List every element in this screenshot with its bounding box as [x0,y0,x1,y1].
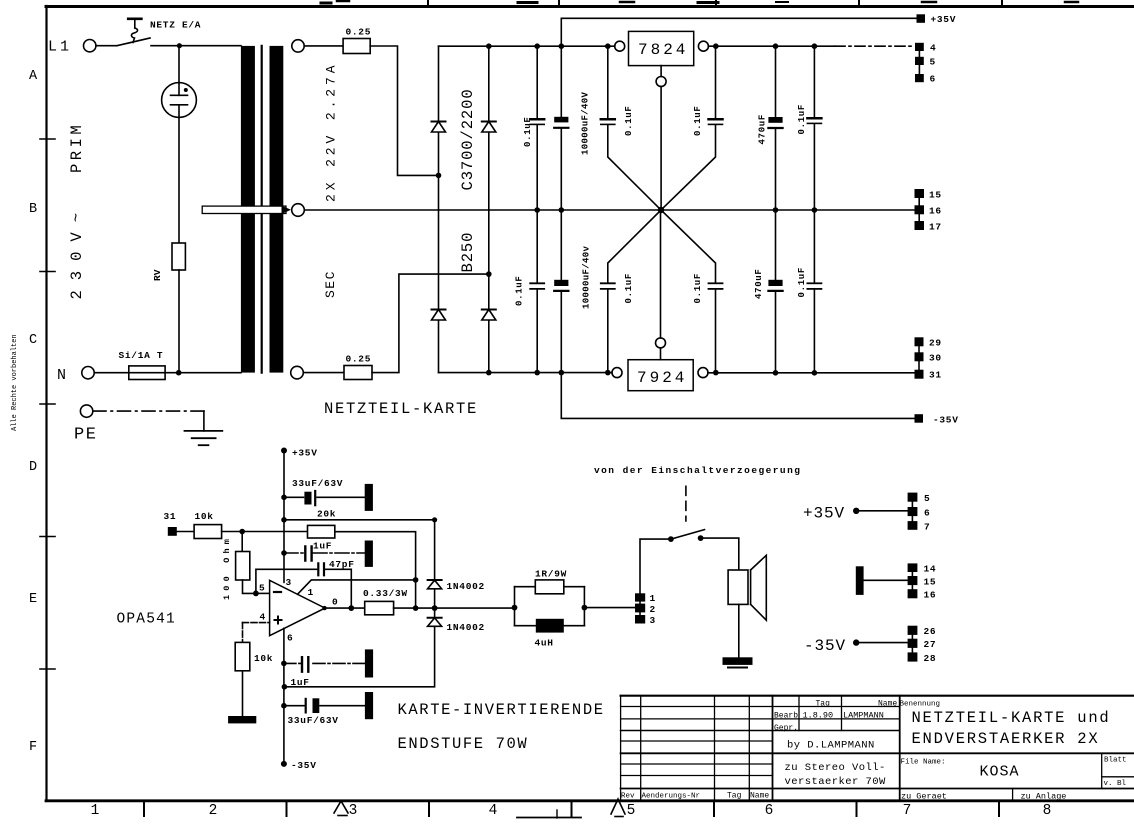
svg-text:Name: Name [750,792,769,801]
wire contact to speaker [701,538,739,570]
output network bracket right [583,587,585,626]
svg-text:1uF: 1uF [313,541,332,552]
junction 47pF output [348,605,354,611]
resistor 20k [308,525,335,538]
wire N to fuse [94,372,129,374]
svg-text:2X 22V 2.27A: 2X 22V 2.27A [324,62,339,202]
capacitor 0.1uF right of 7824 top [661,46,716,210]
junction 33uF bottom [281,703,287,709]
svg-text:33uF/63V: 33uF/63V [288,715,339,726]
svg-text:4: 4 [930,43,936,54]
svg-text:PE: PE [74,426,97,445]
connector pins 29 30 31 [915,337,924,346]
capacitor 0.1uF left of 7924 bottom [608,210,661,373]
resistor 10k lower [235,642,250,670]
svg-text:Blatt: Blatt [1104,757,1127,765]
wire to connector 2 [584,607,635,609]
svg-text:KARTE-INVERTIERENDE: KARTE-INVERTIERENDE [398,701,605,719]
ground bar 33uF bottom [365,692,373,719]
V- rail [283,628,285,764]
resistor 100 Ohm [236,552,250,581]
blatt cell [1101,753,1103,788]
svg-text:PRIM: PRIM [68,122,86,173]
wire sec bottom to fuse 0.25 [303,372,344,374]
svg-text:10000uF/40V: 10000uF/40V [581,91,591,155]
wire sec top to fuse 0.25 [304,45,343,47]
border frame left line [45,6,47,801]
wire raw+ to +35V line [561,18,917,46]
svg-text:0.1uF: 0.1uF [797,104,807,135]
switch NETZ E/A lever [117,38,150,46]
resistor 10k input [194,525,222,539]
svg-text:Alle Rechte vorbehalten: Alle Rechte vorbehalten [11,334,19,431]
terminal -35V amp [281,761,287,767]
svg-text:7: 7 [924,522,930,533]
svg-text:6: 6 [287,632,293,643]
clamp wire to diode column [284,520,435,580]
left ruler ticks [40,139,55,669]
svg-text:+35V: +35V [931,14,957,25]
feedback wire node A to 20k [242,531,307,533]
svg-text:D: D [29,460,37,475]
svg-text:B: B [29,202,37,217]
speaker LS [728,570,748,604]
svg-text:26: 26 [924,626,937,637]
svg-text:ENDSTUFE 70W: ENDSTUFE 70W [398,735,529,753]
glow lamp [162,83,197,118]
svg-text:230V~: 230V~ [68,203,86,300]
diode D3 [432,309,446,311]
top ruler tick fragments [321,0,1078,5]
switch NETZ E/A actuator [128,17,141,20]
svg-text:1: 1 [91,803,100,819]
svg-text:1N4002: 1N4002 [447,622,485,633]
transformer core line [261,46,263,373]
svg-text:File Name:: File Name: [901,758,946,766]
output network bracket left [514,587,516,626]
svg-text:27: 27 [924,639,937,650]
capacitor 1uF top [284,552,365,554]
svg-text:31: 31 [164,511,177,522]
junction 33uF top [281,495,287,501]
wire to op-amp pin 5 [256,592,270,594]
ground symbol at PE [185,430,223,432]
ground bar speaker [723,657,753,665]
relay contact dots [668,536,674,542]
capacitor 0.1uF right col bottom [813,210,815,373]
diode D2 [482,121,496,123]
raw + rail [439,45,615,47]
svg-text:by D.LAMPMANN: by D.LAMPMANN [787,740,875,752]
wire -35V to pin 27 [856,642,907,644]
svg-text:4uH: 4uH [535,638,554,649]
svg-text:OPA541: OPA541 [117,612,176,628]
capacitor 0.1uF col1 bottom [536,210,538,373]
resistor 1R/9W [515,586,536,588]
svg-text:2: 2 [650,604,656,615]
capacitor 0.1uF right of 7924 bottom [661,210,716,373]
wire +35V to pin 6 [856,510,907,512]
junction bridge AC1 [436,173,442,179]
connector pins 4 5 6 [915,43,924,51]
-35V feed dot [853,639,859,645]
svg-text:1: 1 [308,587,314,598]
regulator 7824 [629,31,694,65]
wire lamp to RV [178,117,180,243]
svg-text:Tag: Tag [816,700,831,709]
title block text [621,700,1127,802]
svg-text:Benennung: Benennung [900,700,941,708]
capacitor 0.1uF col1 top [536,46,538,210]
terminal PE [80,405,92,417]
connector pins 1 2 3 [635,593,645,601]
svg-text:Aenderungs-Nr: Aenderungs-Nr [642,793,701,801]
wire ground to pin 15 [864,579,908,581]
junction feedback output [413,605,419,611]
output wire [325,607,365,609]
bottom ruler ticks [144,801,999,816]
svg-text:SEC: SEC [323,270,338,298]
V+ rail [283,451,285,583]
terminal 31 input [168,527,177,536]
capacitor 47pF [318,563,324,575]
svg-text:5: 5 [930,57,936,68]
svg-text:7824: 7824 [638,41,688,59]
terminal L1 [84,40,96,52]
revision table verticals [640,696,642,800]
svg-text:zu Anlage: zu Anlage [1021,791,1067,801]
svg-text:470uF: 470uF [754,268,764,299]
amplifier labels [164,448,937,772]
capacitor 470uF bottom [775,210,777,373]
border frame top line [46,5,1134,8]
wire speaker to ground [738,604,740,657]
svg-text:5: 5 [627,803,636,819]
svg-text:L1: L1 [48,39,72,56]
wire L1 to switch [96,45,117,47]
connector pins 14 15 16 [908,563,918,572]
svg-text:Si/1A T: Si/1A T [119,350,164,361]
svg-text:28: 28 [924,653,937,664]
svg-text:0.1uF: 0.1uF [624,105,634,136]
transformer T1 primary bar [241,46,255,206]
pin 1 wire [298,580,416,594]
transformer secondary bar [270,46,284,206]
diode D4 [482,309,496,311]
junction inv input [253,591,259,597]
benennung section divider [899,696,901,800]
svg-text:E: E [29,592,37,607]
fuse 0.25 bottom [344,366,372,380]
svg-text:0.33/3W: 0.33/3W [363,588,408,599]
svg-text:16: 16 [929,206,942,217]
capacitor 0.1uF left of 7824 top [608,46,661,210]
svg-text:C: C [29,333,37,348]
zu geraet divider [1012,789,1014,801]
secondary top terminal [292,40,304,52]
svg-text:5: 5 [259,583,265,594]
svg-text:33uF/63V: 33uF/63V [292,478,343,489]
connector pins 5 6 7 [908,493,918,502]
inductor 4uH [515,625,536,627]
ground pin wire 7824 to center [660,87,662,211]
capacitor 33uF/63V bottom [284,705,365,707]
border frame bottom line [46,799,1134,802]
junction bridge - [486,370,492,376]
svg-text:15: 15 [924,577,937,588]
svg-text:0.1uF: 0.1uF [523,116,533,147]
node A junction [239,529,245,535]
bottom ruler numbers [91,803,1052,819]
svg-text:NETZ E/A: NETZ E/A [150,20,201,31]
wire 31 to 10k [177,531,194,533]
svg-text:NETZTEIL-KARTE: NETZTEIL-KARTE [324,400,478,418]
wire inv node up to 47pF [256,569,317,593]
fuse Si/1A T [129,366,165,380]
center tap arrow [202,206,286,213]
svg-text:zu Stereo Voll-: zu Stereo Voll- [785,762,886,774]
junction clamp line [281,517,287,523]
secondary bottom terminal [291,366,304,379]
svg-text:RV: RV [152,269,163,281]
bridge B250 branch 1 [438,46,440,372]
svg-text:1.8.90: 1.8.90 [803,710,834,720]
raw - rail [439,372,613,374]
wire 7924 out [708,372,915,374]
svg-text:1R/9W: 1R/9W [535,569,567,580]
junction node at lamp branch [177,43,182,48]
svg-text:0.1uF: 0.1uF [624,273,634,304]
fold mark near 3 [334,801,348,813]
svg-text:v. Bl: v. Bl [1104,780,1127,788]
svg-text:30: 30 [929,353,942,364]
title block left edge [620,696,622,800]
svg-text:1N4002: 1N4002 [447,581,485,592]
wire node down to glow lamp [178,46,180,83]
junction 1uF bottom [281,661,287,667]
svg-text:20k: 20k [317,509,336,520]
svg-text:Bearb: Bearb [774,712,798,721]
terminal +35V amp [281,448,287,454]
bearb/gepr grid verticals [798,696,800,731]
regulator 7924 [628,360,693,391]
ground bar feed [856,566,864,595]
output wire after resistor [394,607,515,609]
svg-text:+35V: +35V [292,448,318,459]
wire 47pF to output [326,569,352,608]
svg-text:8: 8 [1043,803,1052,819]
junction bridge + [486,43,492,49]
svg-text:10k: 10k [195,511,214,522]
svg-text:LAMPMANN: LAMPMANN [843,710,884,720]
junction feedback/pin1 [413,577,419,583]
svg-text:6: 6 [930,74,936,85]
wire switch to node [151,45,241,47]
svg-text:-35V: -35V [291,760,317,771]
svg-text:0.1uF: 0.1uF [515,275,525,306]
svg-text:0.25: 0.25 [346,27,372,38]
feedback wire 20k to output [335,532,416,608]
power supply labels [119,14,959,426]
svg-text:C3700/2200: C3700/2200 [459,88,477,190]
terminal N [82,367,94,379]
svg-text:3: 3 [349,803,358,819]
diode 1N4002 upper [428,579,442,581]
capacitor 33uF/63V top [284,496,365,498]
svg-text:Tag: Tag [727,792,742,801]
svg-text:15: 15 [929,190,942,201]
svg-text:0.1uF: 0.1uF [693,105,703,136]
clamp wire lower to V- rail [284,626,434,687]
relay contact lever [671,530,705,540]
svg-text:0.1uF: 0.1uF [693,273,703,304]
capacitor 470uF top [775,46,777,210]
svg-text:ENDVERSTAERKER 2X: ENDVERSTAERKER 2X [912,730,1100,748]
fold mark near 5 [611,799,625,814]
capacitor 1uF bottom [284,662,365,664]
relay actuator dashed [685,486,687,521]
svg-text:470uF: 470uF [758,114,768,145]
svg-text:1: 1 [650,593,656,604]
wire fuse to bridge AC2 [372,274,489,373]
diode D1 [432,121,446,123]
svg-text:3: 3 [286,577,292,588]
junction bridge AC2 [486,271,492,277]
svg-text:0.25: 0.25 [346,354,372,365]
wire fuse to bridge AC1 [370,46,438,175]
wire pin1 up to relay contact [640,539,671,593]
wire 10k to node A [222,531,243,533]
svg-text:KOSA: KOSA [980,764,1020,781]
svg-text:NETZTEIL-KARTE und: NETZTEIL-KARTE und [912,709,1111,727]
svg-text:B250: B250 [459,232,477,273]
revision table rows [621,706,900,708]
ground bar 1uF bottom [365,649,373,677]
svg-text:N: N [57,367,66,384]
wire 100 Ohm to inv input [243,580,256,593]
svg-text:F: F [29,740,37,755]
svg-text:17: 17 [929,222,942,233]
svg-text:29: 29 [929,338,942,349]
svg-text:4: 4 [260,611,266,622]
svg-text:6: 6 [924,508,930,519]
underline mark between 4 and 5 [517,817,581,819]
junction 1uF top [281,550,287,556]
pin 4 wire [243,622,270,624]
resistor RV [172,243,185,270]
diode 1N4002 lower [434,608,436,618]
wire raw- to -35V line [561,373,915,419]
title block outer top [621,695,1134,697]
op-amp OPA541 triangle [270,580,325,635]
svg-text:6: 6 [765,803,774,819]
svg-text:Gepr.: Gepr. [774,724,798,733]
terminal -35V [915,414,924,423]
star center junction [658,207,664,213]
secondary center terminal [292,204,305,217]
svg-text:von der Einschaltverzoegerung: von der Einschaltverzoegerung [594,465,801,476]
connector pins 26 27 28 [908,626,918,635]
svg-text:Name: Name [878,700,897,709]
svg-text:2: 2 [209,803,218,819]
wire 7824 out [708,45,835,47]
ground bar 33uF top [365,484,373,511]
svg-text:zu Geraet: zu Geraet [901,791,947,801]
PE dash-dot wire [93,410,204,412]
svg-text:7924: 7924 [637,369,687,387]
capacitor 10000uF/40V bottom [560,210,562,373]
bridge B250 branch 2 [488,46,490,372]
connector pins 15 16 17 [915,189,925,198]
resistor 0.33/3W [365,601,394,614]
wire fuse to transformer [165,372,241,374]
svg-text:+35V: +35V [803,505,845,523]
ground bar below 10k [228,716,256,723]
ground bar 1uF top [365,541,373,567]
wire RV to N line [178,270,180,373]
svg-text:31: 31 [929,370,942,381]
0V center rail [304,209,914,211]
svg-text:5: 5 [924,493,930,504]
svg-text:1uF: 1uF [291,677,310,688]
svg-text:4: 4 [489,803,498,819]
svg-text:7: 7 [903,803,912,819]
svg-text:-35V: -35V [804,637,846,655]
svg-text:0: 0 [332,596,338,607]
left ruler letters [29,69,38,755]
svg-text:47pF: 47pF [329,559,355,570]
svg-text:A: A [29,69,38,84]
svg-text:10000uF/40v: 10000uF/40v [582,245,592,309]
svg-text:-35V: -35V [933,415,959,426]
svg-text:Rev: Rev [621,793,635,801]
terminal +35V [917,14,926,22]
svg-text:16: 16 [924,590,937,601]
svg-text:verstaerker 70W: verstaerker 70W [785,776,887,788]
wire node A down to 100 Ohm [241,532,243,552]
svg-text:100 Ohm: 100 Ohm [222,535,232,600]
junction at RV bottom [176,370,182,376]
junction diode clamp output [432,605,438,611]
svg-text:3: 3 [650,615,656,626]
fuse 0.25 top [343,39,370,54]
svg-text:0.1uF: 0.1uF [797,267,807,298]
capacitor 10000uF/40V top [560,46,562,210]
svg-text:14: 14 [924,564,937,575]
svg-text:10k: 10k [254,653,273,664]
capacitor 0.1uF right col top [813,46,815,210]
wire 10k to ground bar [242,671,244,717]
wire pin4 down to 10k [242,623,244,643]
+35V feed dot [853,508,859,514]
